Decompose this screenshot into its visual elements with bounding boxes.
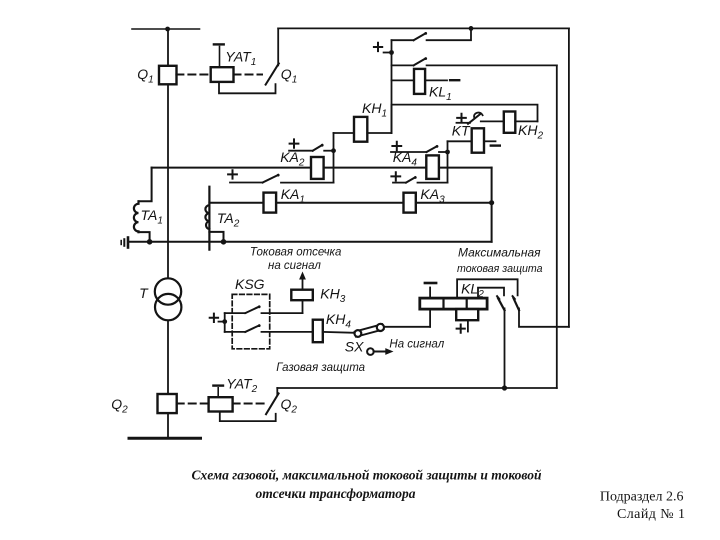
wire: KL2 coil lower tick to SX (429, 309, 431, 327)
svg-text:Максимальная: Максимальная (458, 246, 541, 260)
wire: bottom dc wire to Q2 (277, 387, 557, 389)
wire: KL2 aux wire to first contact (478, 288, 504, 298)
relay coil KT (448, 140, 472, 142)
svg-text:токовая защита: токовая защита (457, 263, 543, 275)
arrow: KH3 to signal (302, 279, 304, 290)
gas relay KSG dashed box (232, 294, 270, 348)
contact KL1 upper (to top wire) (392, 39, 414, 41)
current coil KA4 (426, 155, 439, 179)
svg-text:SX: SX (345, 339, 364, 355)
svg-text:Подраздел 2.6: Подраздел 2.6 (600, 490, 684, 505)
contact KA3 (391, 172, 400, 180)
CT TA1 (139, 168, 152, 202)
wire: current circuit line 2 (209, 202, 491, 204)
coil YAT1 (211, 67, 234, 82)
top bus (132, 28, 200, 30)
wire: KH1 right riser and link to KH2 (392, 105, 538, 133)
svg-text:Слайд № 1: Слайд № 1 (617, 507, 686, 522)
current coil KA3 (404, 193, 416, 213)
svg-text:отсечки трансформатора: отсечки трансформатора (256, 486, 416, 501)
wire: current circuit line 1 (152, 167, 492, 169)
indicator relay KH4 (313, 320, 323, 343)
svg-text:Схема газовой, максимальной то: Схема газовой, максимальной токовой защи… (191, 468, 542, 483)
main vertical feeder (167, 29, 169, 438)
minus terminal of KT (491, 144, 500, 146)
wire: YAT1 bottom loop (219, 82, 276, 93)
link SX (358, 327, 381, 333)
contact KA4 (392, 142, 401, 150)
wire: YAT2 bottom loop (220, 412, 276, 422)
wire: right column 2 (568, 28, 570, 326)
wire: KH1 left drop to contacts (333, 133, 335, 183)
contact KL2 second (513, 296, 515, 299)
wire: YAT1 mech link dashes (234, 74, 263, 76)
breaker Q2 (158, 394, 177, 413)
wire: YAT2 mech link dashes (233, 403, 265, 405)
contact KA2 (290, 139, 299, 147)
relay coil KH1 (334, 132, 355, 134)
minus terminal of KL1 (450, 79, 459, 81)
contact KSG upper (225, 312, 246, 314)
minus terminal of YAT1 (219, 47, 221, 68)
wire: current return line (129, 241, 492, 243)
ground (127, 238, 130, 248)
svg-text:На сигнал: На сигнал (389, 339, 444, 351)
svg-text:Токовая отсечка: Токовая отсечка (250, 247, 341, 259)
arrow: SX alternate to signal (374, 351, 388, 353)
terminal circle to signal (367, 348, 374, 355)
plus terminal of KL2 (467, 320, 469, 331)
transformer T (155, 278, 181, 304)
contact KT (time delay) (457, 114, 466, 122)
coil YAT2 (209, 397, 233, 411)
relay KL2 coil assembly (420, 298, 487, 309)
svg-text:KSG: KSG (235, 276, 265, 292)
minus terminal of KL2 (429, 288, 431, 299)
indicator relay KH3 (291, 290, 313, 301)
current coil KA1 (264, 193, 277, 213)
CT TA2 (208, 187, 210, 250)
plus supply terminal (374, 43, 382, 51)
relay coil KL1 (392, 79, 415, 81)
contact Q2 (aux) (266, 393, 279, 414)
plus terminal of KSG (210, 314, 218, 322)
wire: right column 1 (556, 65, 558, 388)
contact Q1 (aux) (266, 63, 279, 84)
wire: KA4/KA3 junction riser to KT (447, 141, 449, 182)
node: dot on top dc wire (469, 26, 474, 31)
relay coil KH2 (504, 112, 516, 133)
contact KA1 (228, 170, 237, 178)
breaker Q1 (159, 66, 177, 85)
svg-text:T: T (139, 285, 149, 301)
wire: current circuit right return riser (491, 168, 493, 242)
minus terminal of YAT2 (217, 388, 219, 397)
current coil KA2 (311, 157, 324, 179)
wire: Q2 mech link dashes (177, 403, 209, 405)
node: bus junction dot (165, 27, 170, 32)
svg-text:Газовая защита: Газовая защита (276, 362, 365, 374)
bottom bus (129, 437, 201, 440)
svg-text:KT: KT (452, 123, 471, 139)
contact KL2 first (497, 296, 499, 299)
contact KSG lower (225, 331, 246, 333)
contact KL1 lower (to right column) (392, 64, 414, 66)
wire: KL2 top wire (457, 279, 517, 298)
wire: top dc wire (278, 27, 569, 29)
wire: Q1 mech link dashes (176, 74, 210, 76)
wire: plus vertical riser (391, 40, 393, 133)
svg-text:на сигнал: на сигнал (268, 260, 321, 272)
